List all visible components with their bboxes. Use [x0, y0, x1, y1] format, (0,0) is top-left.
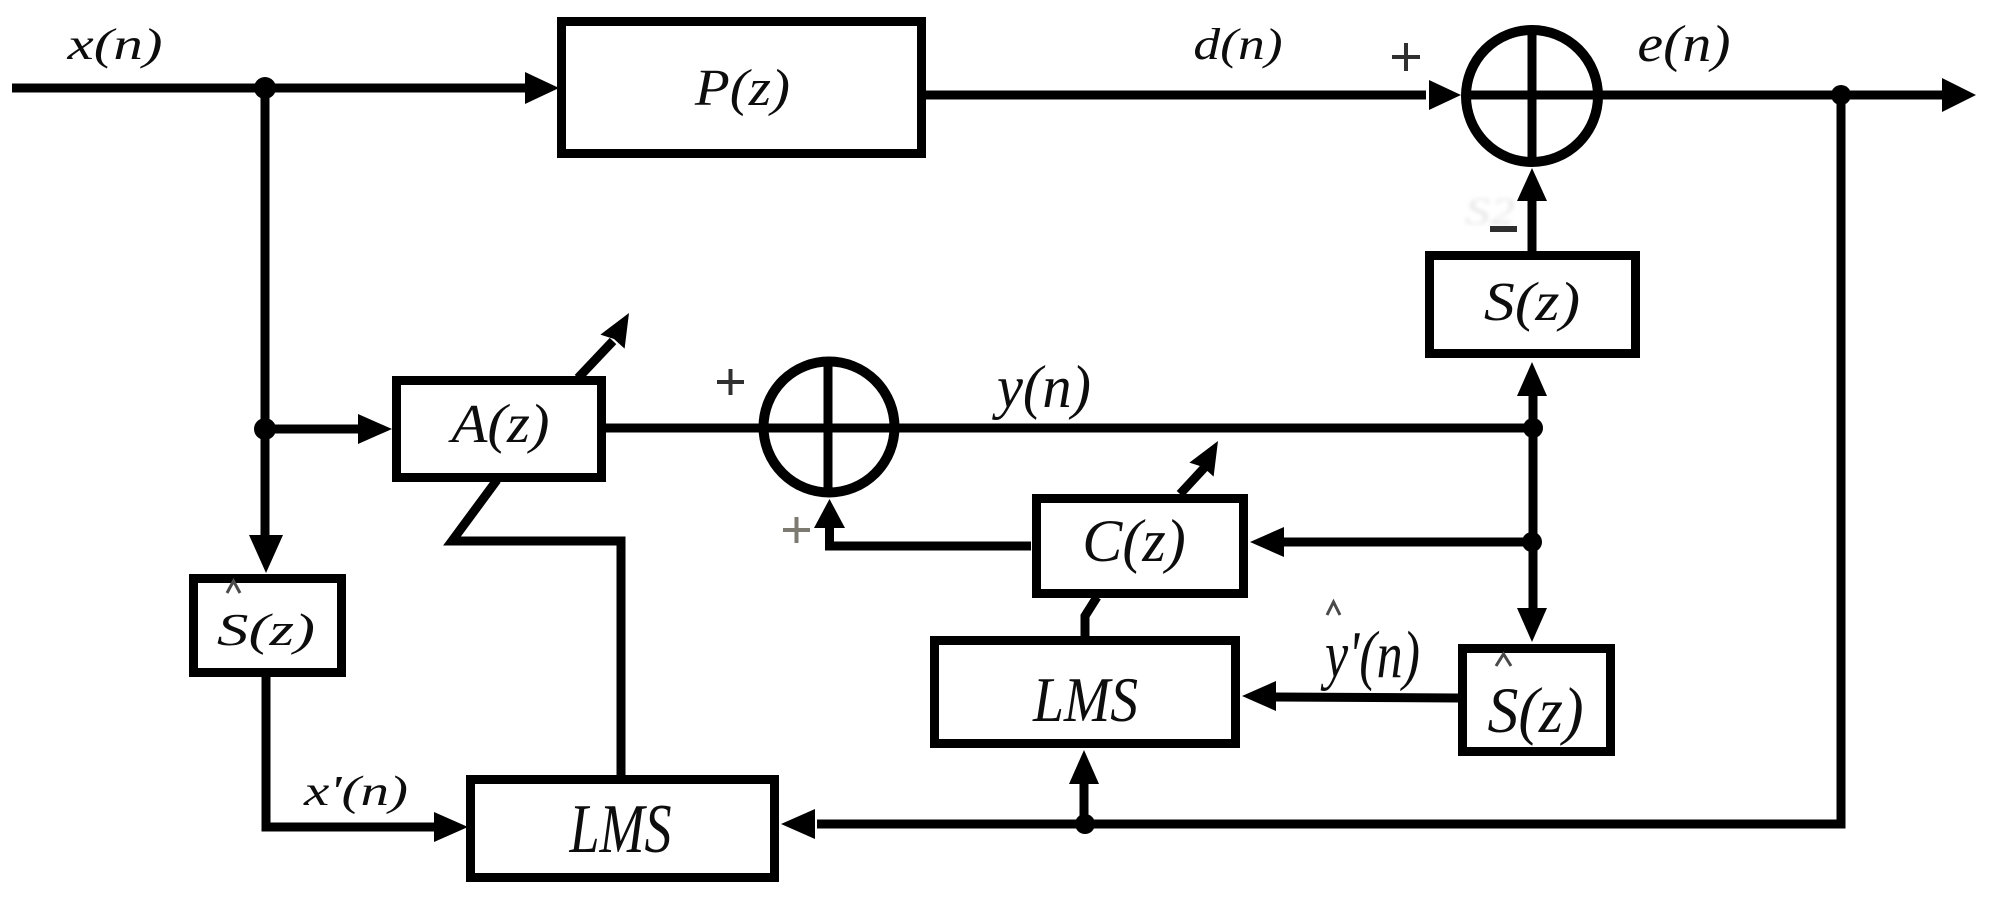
- wire vertical from node A down to node B: [261, 88, 270, 429]
- wire summer1 cross vertical: [1528, 30, 1537, 162]
- arrowhead S(z) into summer U1: [1517, 168, 1547, 201]
- wire feedback right vertical and bottom: [817, 95, 1841, 824]
- wire zigzag C(z) adapt to LMS1: [1085, 597, 1097, 640]
- block Shat-left estimate: [194, 579, 342, 673]
- wire Shat-left output to LMS2 with x'(n): [266, 677, 436, 827]
- arrowhead C(z) into summer U2: [814, 499, 845, 528]
- arrowhead into C(z) right: [1250, 527, 1284, 557]
- svg-text:e(n): e(n): [1637, 16, 1730, 73]
- arrowhead into LMS1 right: [1242, 681, 1276, 711]
- block LMS1: [935, 641, 1236, 744]
- arrowhead output e(n): [1942, 78, 1976, 112]
- wire adapt arrow line A(z): [578, 341, 613, 378]
- node D junction dot: [1522, 532, 1542, 552]
- wire S(z) output up to summer1: [1528, 200, 1537, 251]
- svg-text:LMS: LMS: [569, 791, 672, 868]
- wire node C up into S(z): [1529, 396, 1538, 428]
- wire A(z) output: [606, 424, 764, 433]
- svg-text:C(z): C(z): [1082, 508, 1185, 575]
- block C(z) feedback filter: [1037, 499, 1244, 594]
- arrowhead into LMS2 left: [434, 812, 468, 842]
- sign plus at summer U2 upper: [717, 380, 744, 384]
- svg-text:A(z): A(z): [447, 393, 549, 454]
- svg-text:y'(n): y'(n): [1320, 618, 1420, 692]
- svg-text:LMS: LMS: [1032, 665, 1138, 735]
- summer U1 (circle plus): [1466, 30, 1598, 162]
- arrowhead into Shat-right top: [1517, 608, 1547, 642]
- arrowhead into P(z): [525, 72, 559, 104]
- wire A(z) input feed: [265, 425, 358, 434]
- wire e(n) output: [1600, 91, 1945, 100]
- node B junction dot: [254, 418, 276, 440]
- arrowhead into summer U1: [1429, 80, 1461, 110]
- wire summer2 cross horizontal: [766, 424, 890, 433]
- sign minus at summer U1: [1490, 226, 1517, 232]
- svg-text:S(z): S(z): [217, 604, 315, 655]
- wire y(n) from summer2 to node C: [890, 424, 1533, 433]
- node F junction dot (error tap): [1075, 814, 1095, 834]
- arrowhead into Shat-left: [249, 535, 283, 573]
- sign plus at summer U1: [1392, 55, 1420, 59]
- arrowhead into S(z) bottom: [1517, 362, 1547, 396]
- block A(z) adaptive filter: [397, 381, 602, 478]
- arrowhead adapt C(z): [1189, 441, 1218, 477]
- hat over Shat-right: [1496, 654, 1511, 666]
- wire Shat-right output yhat'(n) to LMS1: [1274, 697, 1458, 698]
- svg-text:S(z): S(z): [1484, 271, 1580, 332]
- block S(z) secondary path: [1430, 256, 1636, 354]
- svg-text:y(n): y(n): [992, 354, 1091, 420]
- wire C(z) output up to summer2: [830, 522, 1032, 546]
- svg-text:S(z): S(z): [1487, 674, 1583, 746]
- wire node B down to Shat-left: [261, 429, 270, 540]
- arrowhead adapt A(z): [600, 313, 629, 349]
- block Shat-right estimate: [1463, 649, 1611, 752]
- svg-text:d(n): d(n): [1193, 19, 1282, 69]
- svg-text:x'(n): x'(n): [303, 768, 408, 815]
- node A junction dot: [254, 77, 276, 99]
- block LMS2: [471, 780, 775, 878]
- wire adapt arrow line C(z): [1180, 467, 1205, 494]
- block P(z) primary path: [562, 22, 922, 154]
- arrowhead into LMS1 bottom: [1069, 750, 1099, 784]
- wire node C down to node D and Shat-right: [1529, 428, 1538, 610]
- wire summer2 cross vertical: [824, 364, 833, 491]
- node C junction dot: [1523, 418, 1543, 438]
- svg-text:x(n): x(n): [66, 19, 162, 69]
- wire error up into LMS1: [1080, 782, 1089, 824]
- hat over Shat-left: [227, 581, 240, 593]
- wire zigzag A(z) adapt to LMS2: [452, 480, 621, 775]
- svg-text:P(z): P(z): [694, 59, 790, 117]
- node E junction dot (e(n) tap): [1831, 85, 1851, 105]
- hat over y of yhat'(n): [1327, 602, 1340, 615]
- wire summer1 cross horizontal: [1466, 91, 1598, 100]
- arrowhead into A(z): [358, 414, 392, 444]
- summer U2 (circle plus): [764, 362, 895, 493]
- wire node D to C(z) input: [1282, 538, 1532, 547]
- wire x(n) input: [12, 84, 527, 93]
- wire P(z) output d(n): [926, 91, 1426, 100]
- arrowhead into LMS2 right: [781, 809, 815, 839]
- sign plus at summer U2 lower: [783, 517, 810, 543]
